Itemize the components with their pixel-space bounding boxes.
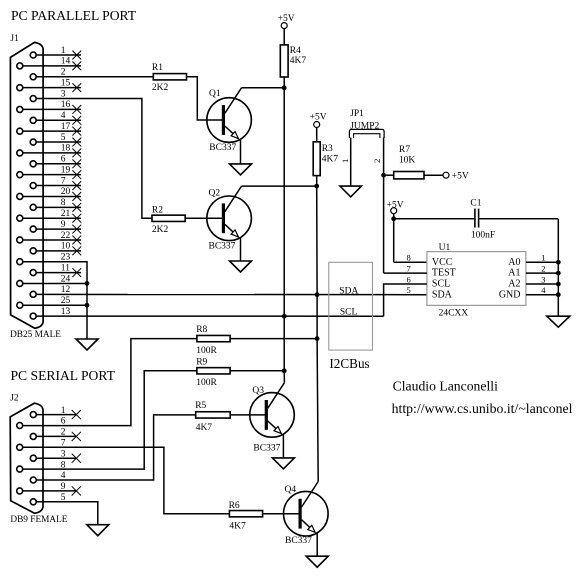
svg-text:SCL: SCL bbox=[432, 279, 450, 290]
svg-text:BC337: BC337 bbox=[285, 536, 312, 546]
svg-text:18: 18 bbox=[61, 144, 71, 154]
svg-text:1: 1 bbox=[340, 159, 350, 163]
svg-text:100R: 100R bbox=[196, 346, 217, 356]
svg-text:R5: R5 bbox=[195, 401, 206, 411]
svg-text:10K: 10K bbox=[399, 155, 416, 165]
svg-text:A0: A0 bbox=[508, 257, 520, 268]
svg-text:BC337: BC337 bbox=[209, 241, 236, 251]
svg-text:2: 2 bbox=[541, 264, 545, 274]
svg-text:6: 6 bbox=[61, 417, 66, 427]
svg-text:8: 8 bbox=[61, 198, 66, 208]
svg-text:+5V: +5V bbox=[310, 112, 327, 122]
svg-text:R8: R8 bbox=[196, 325, 207, 335]
svg-text:R4: R4 bbox=[290, 46, 301, 56]
svg-text:5: 5 bbox=[406, 285, 410, 295]
svg-text:14: 14 bbox=[61, 57, 71, 67]
svg-text:10: 10 bbox=[61, 242, 71, 252]
svg-text:R7: R7 bbox=[399, 145, 410, 155]
svg-text:6: 6 bbox=[61, 155, 66, 165]
svg-text:11: 11 bbox=[61, 263, 70, 273]
svg-text:DB9 FEMALE: DB9 FEMALE bbox=[10, 515, 67, 525]
svg-text:1: 1 bbox=[61, 406, 66, 416]
svg-text:R9: R9 bbox=[196, 358, 207, 368]
svg-text:SCL: SCL bbox=[340, 307, 358, 317]
svg-text:+5V: +5V bbox=[452, 171, 469, 181]
svg-text:7: 7 bbox=[61, 176, 66, 186]
svg-text:A1: A1 bbox=[508, 268, 520, 279]
svg-text:21: 21 bbox=[61, 209, 71, 219]
svg-text:22: 22 bbox=[61, 231, 71, 241]
svg-text:Claudio Lanconelli: Claudio Lanconelli bbox=[393, 379, 498, 394]
svg-text:Q4: Q4 bbox=[285, 485, 297, 495]
svg-text:19: 19 bbox=[61, 165, 71, 175]
svg-text:100R: 100R bbox=[196, 378, 217, 388]
svg-text:SDA: SDA bbox=[339, 286, 358, 296]
svg-text:2: 2 bbox=[372, 159, 382, 163]
svg-text:BC337: BC337 bbox=[209, 143, 236, 153]
svg-text:R1: R1 bbox=[152, 63, 163, 73]
svg-text:1: 1 bbox=[61, 46, 66, 56]
svg-text:http://www.cs.unibo.it/~lancon: http://www.cs.unibo.it/~lanconel bbox=[392, 401, 573, 416]
svg-text:U1: U1 bbox=[439, 243, 451, 253]
svg-text:20: 20 bbox=[61, 187, 71, 197]
svg-text:9: 9 bbox=[61, 220, 66, 230]
svg-text:DB25 MALE: DB25 MALE bbox=[10, 330, 61, 340]
svg-text:A2: A2 bbox=[508, 279, 520, 290]
svg-text:8: 8 bbox=[406, 253, 410, 263]
svg-text:16: 16 bbox=[61, 100, 71, 110]
svg-text:2K2: 2K2 bbox=[152, 225, 169, 235]
svg-text:Q3: Q3 bbox=[252, 386, 264, 396]
svg-text:GND: GND bbox=[499, 289, 521, 300]
svg-text:Q2: Q2 bbox=[209, 189, 221, 199]
svg-text:TEST: TEST bbox=[432, 268, 456, 279]
svg-text:6: 6 bbox=[406, 274, 410, 284]
svg-text:5: 5 bbox=[61, 133, 66, 143]
svg-text:R3: R3 bbox=[322, 144, 333, 154]
svg-text:BC337: BC337 bbox=[253, 443, 280, 453]
svg-text:8: 8 bbox=[61, 460, 66, 470]
svg-text:7: 7 bbox=[406, 264, 410, 274]
svg-text:4: 4 bbox=[61, 111, 66, 121]
svg-text:JP1: JP1 bbox=[350, 109, 364, 119]
svg-text:I2CBus: I2CBus bbox=[329, 356, 369, 371]
svg-text:+5V: +5V bbox=[278, 14, 295, 24]
svg-text:1: 1 bbox=[541, 253, 545, 263]
svg-text:4K7: 4K7 bbox=[196, 423, 213, 433]
svg-text:4: 4 bbox=[541, 285, 546, 295]
svg-text:4K7: 4K7 bbox=[290, 56, 307, 66]
svg-text:2K2: 2K2 bbox=[152, 83, 169, 93]
svg-text:SDA: SDA bbox=[432, 289, 453, 300]
svg-text:9: 9 bbox=[61, 482, 66, 492]
svg-text:3: 3 bbox=[541, 274, 545, 284]
svg-text:17: 17 bbox=[61, 122, 71, 132]
svg-text:3: 3 bbox=[61, 449, 66, 459]
svg-text:Q1: Q1 bbox=[209, 89, 221, 99]
svg-text:VCC: VCC bbox=[432, 257, 453, 268]
svg-text:R6: R6 bbox=[229, 501, 240, 511]
svg-text:2: 2 bbox=[61, 428, 66, 438]
svg-text:J1: J1 bbox=[10, 34, 19, 44]
svg-text:J2: J2 bbox=[10, 393, 19, 403]
svg-text:24CXX: 24CXX bbox=[439, 308, 469, 318]
svg-text:PC PARALLEL PORT: PC PARALLEL PORT bbox=[11, 8, 137, 23]
svg-text:C1: C1 bbox=[470, 199, 481, 209]
svg-text:4K7: 4K7 bbox=[229, 522, 246, 532]
svg-text:PC SERIAL PORT: PC SERIAL PORT bbox=[11, 368, 116, 383]
svg-text:100nF: 100nF bbox=[471, 231, 495, 241]
svg-text:15: 15 bbox=[61, 78, 71, 88]
svg-text:4K7: 4K7 bbox=[322, 155, 339, 165]
svg-text:R2: R2 bbox=[152, 205, 163, 215]
